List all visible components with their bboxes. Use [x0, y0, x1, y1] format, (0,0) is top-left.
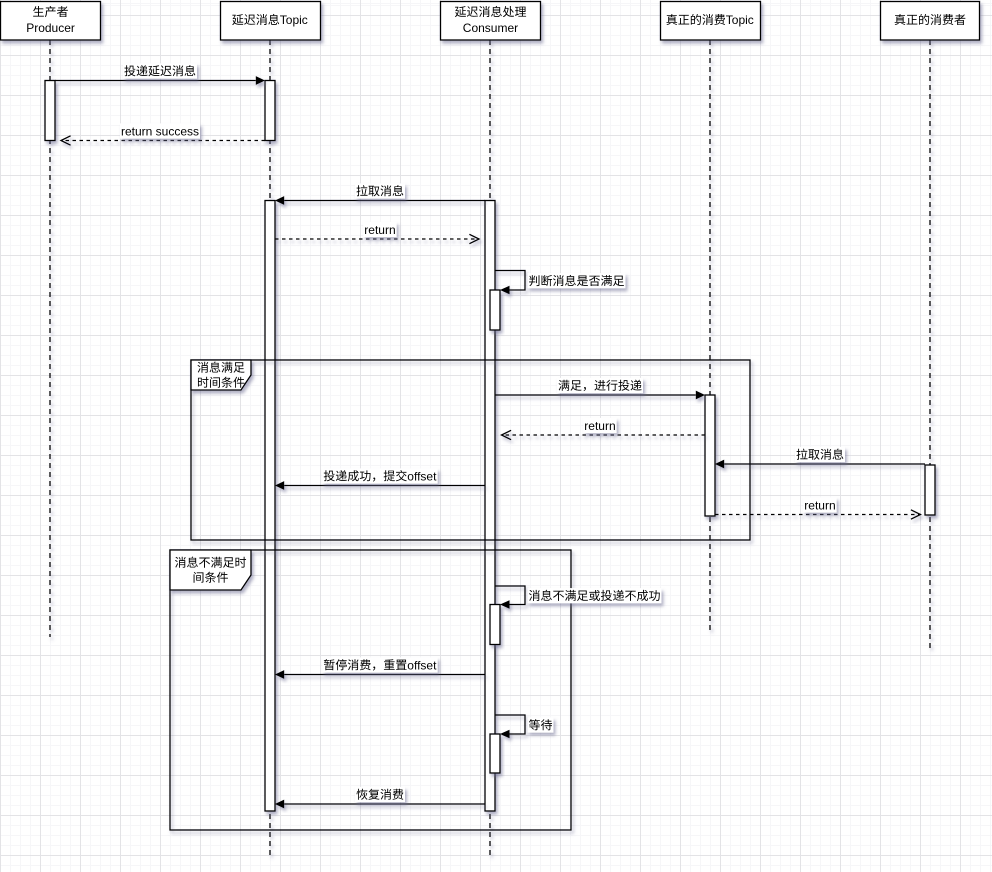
self message 消息不满足或投递不成功: [495, 586, 525, 609]
actor 延迟消息Topic: [221, 2, 321, 41]
message return (真正Topic→真正的消费者): [715, 510, 921, 519]
actor 真正的消费者: [881, 2, 980, 41]
message 满足，进行投递 label: [557, 378, 643, 393]
self message 等待 label: [528, 717, 554, 732]
fragment label 消息不满足时间条件: [170, 550, 251, 590]
actor 延迟消息处理 Consumer: [441, 2, 541, 41]
message 暂停消费，重置offset label: [322, 657, 437, 672]
svg-text:return success: return success: [121, 124, 199, 138]
activation bar Consumer (long): [485, 201, 495, 812]
fragment label 消息满足时间条件: [191, 360, 251, 390]
svg-text:Topic: Topic: [280, 13, 308, 27]
message 暂停消费，重置offset: [275, 670, 485, 679]
message 恢复消费: [275, 800, 485, 809]
svg-text:return: return: [584, 419, 615, 433]
self message 判断消息是否满足: [495, 271, 525, 295]
frame 消息满足时间条件: [191, 360, 750, 540]
message 投递延迟消息 label: [123, 63, 197, 78]
svg-text:offset: offset: [407, 469, 437, 483]
actor 真正的消费Topic: [661, 2, 761, 41]
self message 消息不满足或投递不成功 label: [528, 588, 662, 603]
lifeline 真正的消费Topic: [709, 40, 711, 631]
lifeline 延迟消息Topic: [269, 40, 271, 858]
message return (真正Topic→真正的消费者) label: [803, 497, 836, 512]
activation bar Consumer nested 等待: [490, 734, 500, 773]
svg-text:return: return: [364, 223, 395, 237]
message 恢复消费 label: [355, 787, 405, 802]
activation bar 真正的消费Topic: [705, 395, 715, 516]
message return (延迟Topic→Consumer) label: [363, 222, 396, 237]
message 拉取消息 (真正的消费者→真正Topic): [715, 460, 925, 469]
activation bar 延迟消息Topic (top): [265, 81, 275, 141]
message return (真正Topic→Consumer): [502, 430, 706, 439]
svg-text:Producer: Producer: [26, 21, 75, 35]
message 投递延迟消息: [55, 76, 265, 85]
svg-text:offset: offset: [407, 658, 437, 672]
activation bar 延迟消息Topic (long): [265, 201, 275, 812]
message return success: [61, 136, 265, 145]
frame 消息不满足时间条件: [170, 550, 571, 830]
message 拉取消息 (Consumer→延迟Topic) label: [355, 183, 405, 198]
message return (真正Topic→Consumer) label: [583, 418, 616, 433]
svg-text:Topic: Topic: [726, 13, 754, 27]
message return success label: [120, 123, 200, 138]
activation bar Producer: [45, 81, 55, 141]
self message 判断消息是否满足 label: [528, 273, 626, 288]
message 投递成功，提交offset: [275, 481, 485, 490]
self message 等待: [495, 715, 525, 738]
message 满足，进行投递: [495, 391, 705, 400]
message return (延迟Topic→Consumer): [275, 234, 479, 243]
activation bar Consumer nested 判断: [490, 290, 500, 330]
actor 生产者 Producer: [1, 2, 101, 41]
lifeline 生产者 Producer: [49, 40, 51, 637]
lifeline 真正的消费者: [929, 40, 931, 650]
activation bar 真正的消费者: [925, 465, 935, 515]
svg-text:Consumer: Consumer: [463, 21, 518, 35]
message 拉取消息 (Consumer→延迟Topic): [275, 196, 485, 205]
lifeline 延迟消息处理 Consumer: [489, 40, 491, 858]
message 拉取消息 (真正的消费者→真正Topic) label: [795, 447, 845, 462]
svg-text:return: return: [804, 498, 835, 512]
message 投递成功，提交offset label: [322, 468, 437, 483]
activation bar Consumer nested 不满足: [490, 605, 500, 645]
